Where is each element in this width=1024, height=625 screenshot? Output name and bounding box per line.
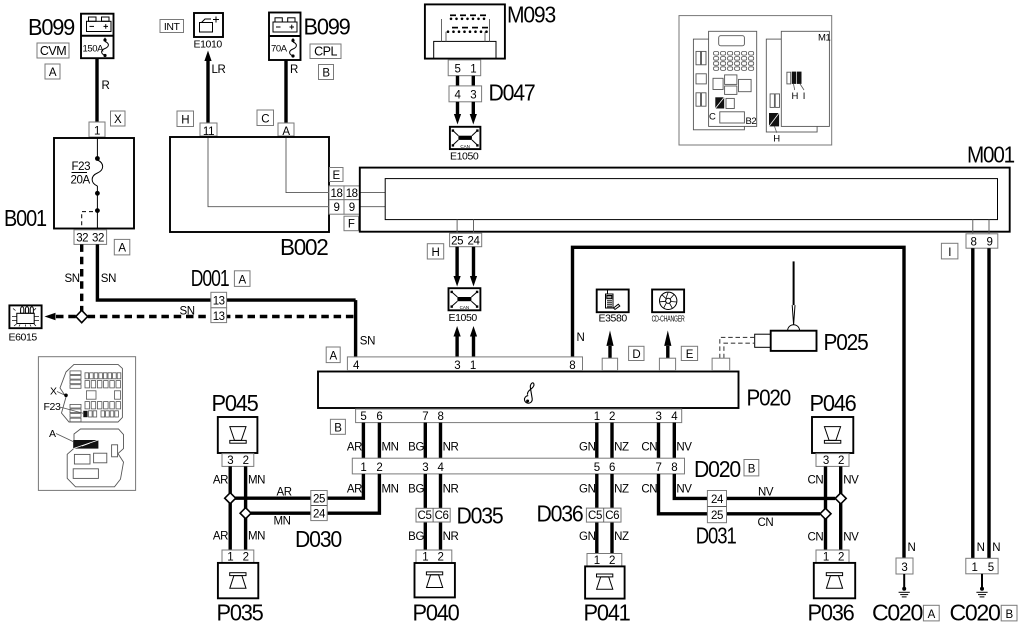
svg-text:BG: BG — [408, 531, 424, 543]
svg-text:P025: P025 — [824, 329, 868, 355]
svg-text:B002: B002 — [280, 234, 328, 260]
tweeter P045 — [212, 390, 258, 453]
svg-text:3: 3 — [227, 455, 233, 467]
wires M001 pins 25 24 to CAN node E1050 with arrows — [454, 247, 478, 287]
svg-text:CN: CN — [641, 442, 657, 454]
svg-text:SN: SN — [65, 273, 80, 285]
connector D030 pins 25 24 — [295, 491, 341, 553]
wire NV D020 pin8 right to junction — [674, 474, 835, 499]
svg-text:P020: P020 — [747, 385, 791, 411]
svg-text:5: 5 — [455, 64, 461, 76]
svg-text:8: 8 — [569, 360, 575, 372]
svg-text:AR: AR — [277, 487, 292, 499]
wire MN P045 pin2 to P035 pin2 — [246, 466, 266, 550]
svg-text:2: 2 — [438, 551, 444, 563]
svg-text:D030: D030 — [295, 526, 341, 552]
pins 1 2 of P036 — [816, 550, 849, 563]
wire CN P046 pin3 to P036 pin1 — [807, 466, 825, 550]
earth point E1010 — [194, 13, 224, 51]
svg-text:CD-CHANGER: CD-CHANGER — [652, 315, 685, 324]
woofer P036 — [808, 563, 856, 625]
P020 top pin stub E — [659, 358, 675, 370]
svg-text:NZ: NZ — [614, 531, 629, 543]
svg-text:1: 1 — [470, 360, 476, 372]
pins 3 2 of P045 — [222, 454, 254, 467]
svg-text:E1050: E1050 — [449, 312, 478, 324]
svg-text:NR: NR — [443, 442, 459, 454]
boxed label INT — [160, 20, 184, 34]
wire inside B002 from pin A to pin 18 — [286, 138, 329, 193]
wire R from B099 to B001 pin 1 — [97, 58, 110, 122]
tweeter P046 — [810, 390, 856, 453]
svg-text:N: N — [908, 542, 916, 554]
svg-text:7: 7 — [422, 411, 428, 423]
svg-text:E: E — [333, 170, 341, 182]
svg-text:25: 25 — [451, 235, 463, 247]
connector D020 strip — [352, 456, 740, 482]
wire NR P020 pin8 to D020 pin4 — [441, 423, 459, 459]
label D001 — [191, 265, 229, 291]
svg-text:CAN: CAN — [460, 144, 470, 149]
battery B099 (CVM) with 150A fuse — [81, 14, 114, 59]
svg-text:H: H — [792, 91, 799, 102]
ground symbol C020 B — [976, 574, 987, 597]
svg-text:B: B — [1005, 609, 1013, 621]
svg-text:25: 25 — [711, 510, 723, 522]
pins 3 2 of P046 — [816, 454, 849, 467]
svg-text:13: 13 — [213, 311, 225, 323]
svg-text:25: 25 — [313, 493, 325, 505]
wire inside B002 from pin 11 to pin 9 — [208, 138, 329, 207]
body computer M001 — [360, 142, 1015, 232]
svg-text:32: 32 — [92, 233, 104, 245]
pins 1 2 of P035 — [222, 550, 254, 563]
svg-text:NV: NV — [758, 487, 774, 499]
svg-text:C020: C020 — [950, 600, 1000, 625]
svg-text:AR: AR — [347, 442, 362, 454]
svg-text:4: 4 — [438, 462, 445, 474]
boxed label A (near D001) — [234, 271, 250, 287]
svg-text:BG: BG — [408, 484, 424, 496]
CD-CHANGER unit — [652, 290, 685, 324]
svg-text:E6015: E6015 — [9, 332, 38, 344]
pins 8 9 of M001 — [966, 220, 998, 249]
svg-text:I: I — [803, 91, 805, 102]
treble clef inside P020 — [524, 383, 533, 403]
svg-text:C5: C5 — [418, 510, 432, 522]
svg-text:B: B — [322, 68, 330, 80]
boxed label D — [629, 346, 644, 361]
svg-text:C6: C6 — [605, 510, 619, 522]
pin 3 of C020 A — [896, 558, 913, 574]
svg-text:GN: GN — [579, 484, 596, 496]
wire N M001 pin8 to C020 B pin1 — [973, 248, 985, 558]
svg-text:A: A — [928, 609, 936, 621]
pin A of B002 — [278, 123, 294, 138]
pins 5 1 of M093 — [448, 60, 481, 76]
wire CN P020 pin3 to D020 pin7 — [641, 423, 658, 459]
P020 top pin stub aerial — [712, 358, 730, 370]
svg-text:N: N — [992, 542, 1000, 554]
boxed label CPL — [310, 44, 341, 59]
svg-text:24: 24 — [468, 235, 481, 247]
wire SN vertical down to P020 pin 4 — [356, 300, 375, 357]
boxed label H (near pins 25 24) — [427, 244, 443, 259]
svg-text:H: H — [432, 247, 440, 259]
svg-text:D001: D001 — [191, 265, 229, 291]
svg-text:1: 1 — [360, 462, 366, 474]
label C020 A — [872, 600, 939, 625]
wire arrow from P020 D pin to E3580 — [606, 330, 613, 358]
svg-text:A: A — [239, 274, 247, 286]
svg-text:3: 3 — [454, 360, 460, 372]
svg-text:1: 1 — [823, 551, 829, 563]
svg-text:B: B — [334, 422, 342, 434]
svg-text:24: 24 — [313, 509, 326, 521]
pins 32 32 of B001 — [74, 230, 107, 245]
wire BG P020 pin7 to D020 pin3 — [408, 423, 425, 459]
boxed label F — [344, 216, 359, 231]
svg-text:2: 2 — [838, 455, 844, 467]
svg-text:MN: MN — [248, 475, 265, 487]
radio P020 — [318, 372, 790, 411]
svg-text:D031: D031 — [696, 523, 736, 549]
wire AR D020 pin1 down and left to junction — [235, 474, 363, 499]
junction diamond on AR wire — [225, 493, 236, 504]
svg-text:M093: M093 — [507, 2, 555, 28]
svg-text:6: 6 — [609, 462, 615, 474]
boxed label A (under B001) — [114, 239, 130, 255]
svg-text:GN: GN — [579, 531, 596, 543]
connector D047 pins 4 3 — [449, 80, 535, 106]
boxed label H — [177, 111, 194, 127]
svg-text:C5: C5 — [588, 510, 602, 522]
svg-text:A: A — [49, 67, 57, 79]
pins 25 24 of M001 — [450, 220, 482, 248]
svg-text:AR: AR — [213, 475, 228, 487]
svg-text:P046: P046 — [810, 390, 856, 416]
wire AR P020 pin5 to D020 pin1 — [347, 423, 364, 459]
svg-text:70A: 70A — [271, 44, 288, 55]
svg-text:P035: P035 — [217, 600, 263, 625]
svg-text:MN: MN — [248, 531, 265, 543]
aerial P025 — [755, 261, 868, 355]
boxed label I (near pins 8 9) — [941, 243, 958, 259]
svg-text:C: C — [709, 112, 716, 123]
junction diamond on MN wire — [240, 508, 251, 519]
svg-text:B2: B2 — [746, 116, 757, 127]
boxed label E — [330, 168, 344, 183]
svg-text:2: 2 — [243, 455, 249, 467]
svg-text:D: D — [632, 349, 640, 361]
woofer P035 — [217, 563, 263, 625]
connector D001 pins 13 13 — [211, 292, 227, 323]
boxed label A (under CVM) — [45, 64, 60, 79]
CAN network node E1050 (lower) — [449, 288, 481, 324]
svg-text:INT: INT — [164, 21, 181, 33]
svg-text:9: 9 — [334, 202, 340, 214]
wires M093 to D047 — [458, 76, 474, 86]
svg-text:3: 3 — [823, 455, 829, 467]
wire SN dashed from junction to P020 (via D001 pin 13) — [88, 306, 356, 318]
svg-text:N: N — [577, 332, 585, 344]
svg-text:AR: AR — [347, 484, 362, 496]
wire MN D020 pin2 down and left to junction — [251, 474, 399, 528]
svg-text:CN: CN — [641, 484, 657, 496]
woofer P041 — [587, 554, 622, 567]
svg-text:1: 1 — [594, 555, 600, 567]
boxed label B (under CPL) — [319, 65, 334, 80]
svg-text:MN: MN — [382, 484, 399, 496]
svg-text:H: H — [773, 134, 780, 145]
svg-text:SN: SN — [101, 273, 116, 285]
wires P020 pins 3 1 to E1050 with arrows up — [454, 326, 478, 357]
svg-text:8: 8 — [971, 237, 977, 249]
svg-text:E1050: E1050 — [450, 151, 479, 163]
wire R from B099 CPL to B002 pin A — [286, 60, 298, 123]
svg-text:H: H — [181, 115, 189, 127]
svg-text:3: 3 — [656, 411, 662, 423]
svg-text:B099: B099 — [28, 14, 74, 40]
svg-text:NZ: NZ — [614, 442, 629, 454]
wire MN P020 pin6 to D020 pin2 — [379, 423, 398, 459]
svg-text:2: 2 — [609, 555, 615, 567]
svg-text:2: 2 — [838, 551, 844, 563]
control unit B002 — [170, 137, 329, 260]
pins 18 18 between B002 and M001 — [329, 186, 360, 200]
label B099 (left) — [28, 14, 74, 40]
wire LR with arrow up to E1010 — [204, 51, 225, 124]
P020 top pin stub D — [602, 358, 617, 370]
svg-text:B001: B001 — [4, 205, 46, 231]
svg-text:D036: D036 — [537, 501, 583, 527]
svg-text:NV: NV — [676, 484, 692, 496]
svg-text:3: 3 — [901, 562, 907, 574]
svg-text:1: 1 — [470, 64, 476, 76]
svg-text:2: 2 — [243, 551, 249, 563]
svg-text:P045: P045 — [212, 390, 258, 416]
junction diamond on SN wire — [76, 310, 88, 322]
wire arrow from P020 E pin to CD-CHANGER — [664, 330, 671, 358]
svg-text:24: 24 — [711, 494, 724, 506]
svg-text:18: 18 — [346, 188, 358, 200]
svg-text:20A: 20A — [71, 175, 91, 187]
svg-text:M1: M1 — [818, 33, 831, 44]
svg-text:B: B — [748, 464, 756, 476]
svg-text:4: 4 — [671, 411, 678, 423]
P020 bottom pin strip pins 5 6 7 8 1 2 3 4 — [356, 409, 682, 423]
svg-text:9: 9 — [987, 237, 993, 249]
svg-text:P036: P036 — [808, 600, 854, 625]
svg-text:4: 4 — [353, 360, 360, 372]
svg-text:A: A — [49, 428, 56, 440]
svg-text:A: A — [118, 243, 126, 255]
connector D036 pins C5 C6 — [537, 501, 622, 527]
label B099 (right) — [304, 14, 350, 40]
inset: fusebox detail with F23 (bottom left) — [38, 357, 135, 491]
svg-text:8: 8 — [438, 411, 444, 423]
svg-text:CVM: CVM — [40, 44, 66, 58]
wire CN D020 pin7 right to junction — [641, 474, 820, 529]
svg-text:5: 5 — [360, 411, 366, 423]
svg-text:A: A — [330, 351, 338, 363]
svg-text:GN: GN — [579, 442, 596, 454]
boxed label B (near P020 bottom) — [330, 419, 345, 434]
fuse 70A inside B099 CPL — [271, 38, 296, 58]
svg-text:5: 5 — [988, 562, 994, 574]
junction diamond on NV wire — [835, 493, 846, 504]
wire AR P045 pin3 to P035 pin1 — [213, 466, 230, 550]
wire NR D020 pin4 to P040 pin2 — [441, 474, 459, 550]
svg-text:E3580: E3580 — [599, 313, 628, 325]
svg-text:X: X — [114, 114, 122, 126]
svg-text:1: 1 — [94, 126, 100, 138]
wire NV P046 pin2 to P036 pin2 — [841, 466, 859, 550]
wires D047 to CAN node E1050 with arrows — [454, 102, 477, 125]
dashed aerial leads P020 to P025 — [720, 337, 755, 358]
svg-text:D020: D020 — [694, 456, 740, 482]
wire 18 to M001 — [360, 192, 386, 194]
svg-text:32: 32 — [76, 233, 88, 245]
pin 1 of B001 — [89, 122, 105, 138]
svg-text:18: 18 — [331, 188, 343, 200]
wire BG D020 pin3 to P040 pin1 — [408, 474, 425, 550]
svg-text:8: 8 — [671, 462, 677, 474]
svg-text:CN: CN — [807, 475, 823, 487]
boxed label A (near P020 pin 4) — [326, 347, 340, 363]
woofer P040 — [416, 550, 452, 563]
svg-text:2: 2 — [609, 411, 615, 423]
svg-text:1: 1 — [422, 551, 428, 563]
svg-text:SN: SN — [360, 336, 375, 348]
svg-text:150A: 150A — [83, 44, 105, 55]
boxed label X — [111, 111, 126, 126]
wire NZ D020 pin6 to P041 pin2 — [612, 474, 629, 554]
svg-text:1: 1 — [972, 562, 978, 574]
wire NZ P020 pin2 to D020 pin6 — [612, 423, 629, 459]
svg-text:LR: LR — [212, 64, 226, 76]
label C020 B — [950, 600, 1018, 625]
svg-text:C: C — [261, 114, 269, 126]
wire N M001 pin9 to C020 B pin5 — [989, 248, 1000, 558]
pins 9 9 between B002 and M001 — [329, 200, 360, 215]
svg-text:F: F — [348, 219, 355, 231]
svg-text:E1010: E1010 — [194, 39, 223, 51]
connector D035 pins C5 C6 — [416, 503, 503, 529]
svg-text:NV: NV — [843, 532, 859, 544]
svg-text:NR: NR — [443, 484, 459, 496]
svg-text:BG: BG — [408, 442, 424, 454]
wire 9 to M001 — [360, 206, 386, 208]
wire NV P020 pin4 to D020 pin8 — [674, 423, 692, 459]
wire SN solid from B001 pin 32 to P020 pin 4 — [97, 244, 355, 300]
svg-text:CPL: CPL — [314, 45, 337, 59]
wire SN dashed from junction to E6015 with arrow — [45, 313, 76, 321]
svg-text:4: 4 — [455, 90, 462, 102]
svg-text:MN: MN — [274, 516, 291, 528]
boxed label E (near P020) — [681, 346, 697, 361]
svg-text:6: 6 — [376, 411, 382, 423]
pin 11 of B002 — [200, 123, 217, 138]
junction diamond on CN wire — [820, 508, 831, 519]
svg-text:D047: D047 — [489, 80, 535, 106]
svg-text:F23: F23 — [72, 161, 91, 173]
P020 top pin strip with pins 4 3 1 8 — [347, 357, 582, 372]
pins 1 5 of C020 B — [966, 558, 998, 574]
wire N from P020 pin 8 to C020 pin 3 — [573, 247, 916, 558]
svg-text:P040: P040 — [413, 600, 459, 625]
battery B099 (CPL) with 70A fuse — [269, 13, 301, 61]
radio aerial amplifier M093 — [425, 2, 556, 59]
boxed label CVM — [37, 43, 69, 58]
svg-text:I: I — [948, 247, 951, 259]
svg-text:C6: C6 — [435, 510, 449, 522]
svg-text:CAN: CAN — [460, 305, 470, 310]
svg-text:CN: CN — [807, 532, 823, 544]
boxed label B (near D020) — [744, 460, 759, 476]
svg-text:AR: AR — [213, 531, 228, 543]
svg-text:13: 13 — [213, 296, 225, 308]
svg-text:MN: MN — [382, 442, 399, 454]
svg-text:E: E — [686, 349, 694, 361]
svg-text:CN: CN — [758, 517, 774, 529]
wire GN D020 pin5 to P041 pin1 — [579, 474, 597, 554]
CAN network node E1050 (upper) — [450, 127, 481, 163]
svg-text:P041: P041 — [584, 600, 630, 625]
connector D031 pins 24 25 — [696, 491, 736, 549]
svg-text:D035: D035 — [457, 503, 503, 529]
svg-text:NR: NR — [443, 531, 459, 543]
fuse 150A inside B099 — [83, 37, 109, 57]
svg-text:C020: C020 — [872, 600, 922, 625]
boxed label C — [257, 110, 274, 126]
svg-text:2: 2 — [376, 462, 382, 474]
telephone unit E3580 — [597, 290, 629, 325]
svg-text:5: 5 — [594, 462, 600, 474]
svg-text:N: N — [977, 542, 985, 554]
svg-text:X: X — [50, 386, 57, 398]
svg-text:NV: NV — [843, 475, 859, 487]
courtesy light E6015 — [9, 305, 42, 343]
svg-text:1: 1 — [227, 551, 233, 563]
inset: dashboard fusebox location (top right) — [679, 16, 832, 145]
svg-text:7: 7 — [656, 462, 662, 474]
svg-text:B099: B099 — [304, 14, 350, 40]
svg-text:SN: SN — [180, 306, 195, 318]
junction box B001 — [4, 138, 134, 231]
svg-text:NV: NV — [676, 442, 692, 454]
fuse F23 20A inside B001 — [71, 138, 103, 229]
svg-text:M001: M001 — [967, 142, 1014, 168]
svg-text:9: 9 — [349, 202, 355, 214]
svg-text:3: 3 — [422, 462, 428, 474]
wire GN P020 pin1 to D020 pin5 — [579, 423, 597, 459]
svg-text:3: 3 — [470, 90, 476, 102]
svg-text:R: R — [290, 64, 298, 76]
svg-text:1: 1 — [594, 411, 600, 423]
svg-text:NZ: NZ — [614, 484, 629, 496]
wire SN dashed from B001 pin 32 — [65, 244, 82, 311]
ground symbol C020 A — [899, 574, 910, 597]
svg-text:R: R — [102, 80, 110, 92]
